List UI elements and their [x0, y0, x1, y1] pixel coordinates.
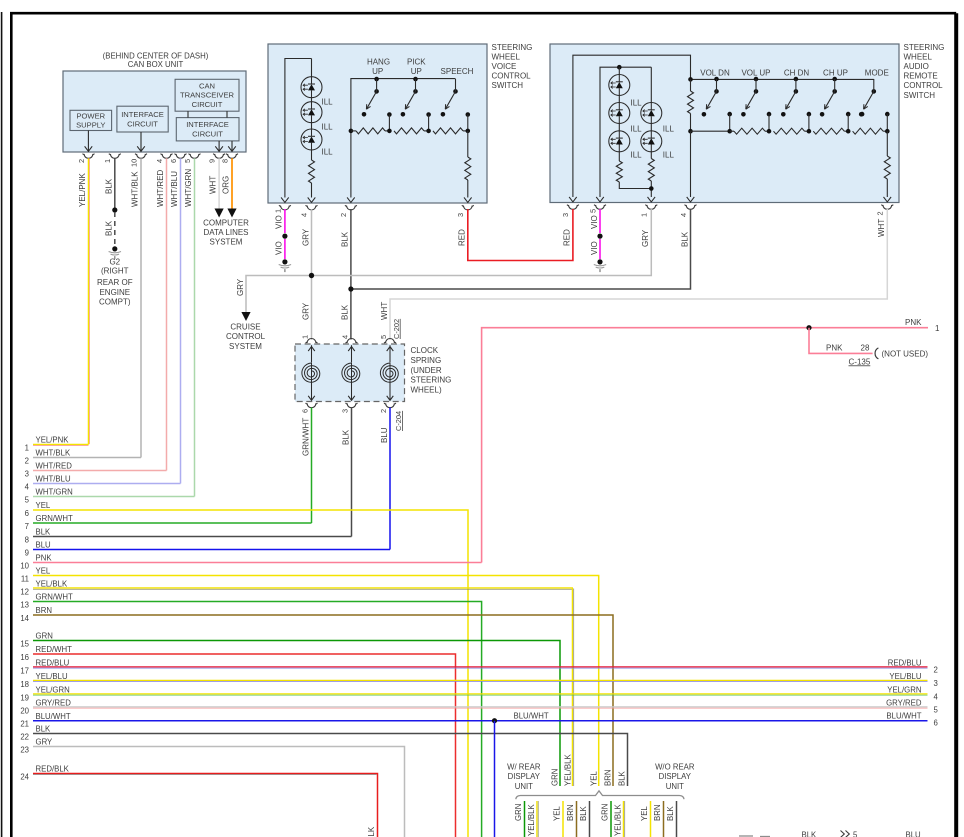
- wire GRY voice pin 4 to junction: [311, 209, 313, 276]
- svg-text:YEL: YEL: [553, 806, 562, 821]
- wire BLK from CAN pin 1: [114, 158, 116, 210]
- svg-text:BLK: BLK: [36, 528, 52, 537]
- wire 16 RED/WHT: [33, 654, 456, 837]
- junction dot PNK: [806, 325, 811, 330]
- svg-text:4: 4: [300, 213, 309, 217]
- svg-text:(NOT USED): (NOT USED): [882, 349, 929, 358]
- svg-text:GRY: GRY: [236, 278, 245, 296]
- wire GRN group 1 below brace: [524, 801, 526, 837]
- svg-text:WHT: WHT: [209, 176, 218, 194]
- svg-text:YEL/GRN: YEL/GRN: [887, 685, 921, 694]
- svg-text:GRN/WHT: GRN/WHT: [36, 514, 73, 523]
- svg-text:WHT/GRN: WHT/GRN: [36, 488, 73, 497]
- LED ILL 1 voice: [301, 77, 322, 98]
- svg-text:SUPPLY: SUPPLY: [76, 121, 105, 130]
- arrow ORG to computer data lines: [227, 209, 236, 218]
- audio series resistor to pin 2: [886, 131, 888, 156]
- svg-text:17: 17: [20, 666, 29, 675]
- wire 22 BLK: [33, 734, 628, 787]
- svg-text:WHT/RED: WHT/RED: [156, 169, 165, 207]
- svg-text:PNK: PNK: [36, 554, 53, 563]
- svg-text:MODE: MODE: [865, 68, 889, 77]
- svg-text:GRY: GRY: [641, 229, 650, 247]
- arrow interface circuit right to pin 8: [231, 141, 233, 151]
- clock spring body: [295, 344, 405, 402]
- wire GRN group 2 below brace: [610, 801, 612, 837]
- svg-text:INTERFACE: INTERFACE: [121, 110, 164, 119]
- connector cup CAN pin 2: [83, 154, 95, 159]
- wire BRN group 2 below brace: [663, 801, 665, 837]
- svg-text:WHT/GRN: WHT/GRN: [184, 169, 193, 207]
- svg-text:1: 1: [103, 159, 112, 163]
- junction dot LED return: [649, 186, 654, 191]
- svg-text:4: 4: [155, 159, 164, 163]
- svg-text:RED/BLK: RED/BLK: [36, 765, 70, 774]
- svg-text:9: 9: [208, 159, 217, 163]
- arrow power supply to pin 2: [87, 131, 89, 152]
- svg-text:DISPLAY: DISPLAY: [508, 772, 541, 781]
- clock spring path pin 1 to 6: [311, 345, 313, 362]
- svg-text:WHT: WHT: [380, 302, 389, 320]
- svg-text:GRY: GRY: [36, 738, 54, 747]
- svg-text:ILL: ILL: [322, 98, 334, 107]
- connector cup CAN pin 5: [189, 154, 201, 159]
- junction dot BLK: [112, 207, 117, 212]
- svg-text:WHT/BLK: WHT/BLK: [131, 171, 140, 207]
- svg-text:CH DN: CH DN: [784, 68, 810, 77]
- svg-text:BLK: BLK: [680, 231, 689, 247]
- wire BLK group 2 below brace: [676, 801, 678, 837]
- svg-text:STEERING: STEERING: [492, 43, 533, 52]
- svg-text:6: 6: [25, 509, 29, 518]
- stub contact pick up: [426, 112, 431, 117]
- voice switch top rail: [351, 79, 456, 198]
- LED ILL 1 audio right: [641, 103, 662, 124]
- wire 5 WHT/GRN: [33, 496, 195, 498]
- svg-text:YEL/BLK: YEL/BLK: [614, 804, 623, 836]
- svg-text:W/ REAR: W/ REAR: [507, 762, 541, 771]
- svg-text:G2: G2: [109, 257, 120, 266]
- wire WHT/RED from CAN pin 4: [166, 158, 168, 470]
- svg-text:BLU/WHT: BLU/WHT: [886, 712, 921, 721]
- wire 1 YEL/PNK: [33, 444, 89, 446]
- svg-text:WHEEL: WHEEL: [492, 52, 521, 61]
- svg-text:3: 3: [25, 469, 29, 478]
- svg-text:BRN: BRN: [653, 805, 662, 821]
- wire BLK clock pin 3 down: [351, 408, 353, 537]
- svg-text:BLK: BLK: [36, 725, 52, 734]
- svg-text:C-135: C-135: [849, 357, 871, 366]
- connector cup clock top pin 5: [384, 339, 396, 344]
- audio pin cups: [567, 205, 579, 210]
- svg-text:24: 24: [20, 772, 29, 781]
- svg-text:ILL: ILL: [322, 123, 334, 132]
- svg-text:ILL: ILL: [322, 148, 334, 157]
- stub contact vol dn: [727, 112, 732, 117]
- wire YEL/PNK from CAN pin 2: [88, 158, 90, 444]
- wire YEL/BLK group 2 below brace: [622, 801, 624, 837]
- svg-text:4: 4: [25, 482, 30, 491]
- wire 17 RED/BLU: [33, 666, 928, 668]
- svg-text:BLK: BLK: [341, 231, 350, 247]
- connector cup CAN pin 1: [109, 154, 121, 159]
- stub contact hang up: [387, 112, 392, 117]
- wire BLK junction to audio pin 4: [351, 209, 691, 289]
- svg-text:BLU: BLU: [380, 427, 389, 443]
- interface circuit block left: [117, 106, 168, 132]
- stub contact vol up: [767, 112, 772, 117]
- svg-text:3: 3: [934, 679, 938, 688]
- interface circuit block right: [176, 118, 239, 141]
- steering wheel audio remote control switch body: [550, 44, 899, 203]
- svg-text:SYSTEM: SYSTEM: [229, 342, 262, 351]
- voice pin cups: [279, 205, 291, 210]
- arrow to cruise control system: [241, 312, 250, 321]
- svg-text:VIO: VIO: [275, 215, 284, 229]
- svg-text:ORG: ORG: [222, 176, 231, 194]
- wire 20 GRY/RED: [33, 706, 928, 708]
- svg-text:YEL/BLK: YEL/BLK: [527, 804, 536, 836]
- svg-text:6: 6: [300, 409, 309, 413]
- connector cup CAN pin 8: [226, 154, 238, 159]
- wire 7 GRN/WHT: [33, 522, 312, 524]
- resistor below audio right LEDs: [650, 152, 652, 159]
- svg-text:SYSTEM: SYSTEM: [210, 237, 243, 246]
- svg-text:INTERFACE: INTERFACE: [186, 120, 229, 129]
- svg-text:4: 4: [934, 692, 939, 701]
- svg-text:BLK: BLK: [104, 178, 113, 194]
- wire GRY audio pin 1 to junction: [312, 209, 652, 276]
- wire 21 BLU/WHT: [33, 720, 928, 722]
- svg-text:2: 2: [339, 213, 348, 217]
- svg-text:AUDIO: AUDIO: [904, 62, 929, 71]
- svg-text:RED/WHT: RED/WHT: [36, 645, 73, 654]
- svg-text:BLK: BLK: [666, 805, 675, 821]
- CAN box unit body: [63, 71, 246, 152]
- wire 9 BLU: [33, 549, 390, 551]
- svg-text:RED/BLK: RED/BLK: [367, 826, 376, 837]
- svg-text:BLU/WHT: BLU/WHT: [36, 712, 71, 721]
- resistor below audio left LEDs: [618, 152, 620, 161]
- svg-text:STEERING: STEERING: [411, 376, 452, 385]
- resistor below voice LEDs: [311, 150, 313, 160]
- wire VIO voice pin 1: [284, 209, 286, 233]
- svg-text:VIO: VIO: [590, 215, 599, 229]
- wire VIO feed inside audio switch: [600, 67, 651, 197]
- svg-text:CONTROL: CONTROL: [904, 81, 944, 90]
- svg-text:YEL/BLK: YEL/BLK: [564, 754, 573, 786]
- wire 6 YEL: [33, 510, 468, 837]
- svg-text:(UNDER: (UNDER: [411, 366, 442, 375]
- svg-text:PNK: PNK: [826, 343, 843, 352]
- svg-text:3: 3: [456, 213, 465, 217]
- wire YEL/BLK group 1 below brace: [536, 801, 538, 837]
- wire WHT/GRN from CAN pin 5: [194, 158, 196, 496]
- LED ILL 2 voice: [301, 102, 322, 123]
- svg-text:1: 1: [25, 443, 29, 452]
- voice series resistor to pin 3: [467, 131, 469, 157]
- svg-text:ILL: ILL: [631, 124, 643, 133]
- svg-text:PICK: PICK: [407, 58, 426, 67]
- wire WHT audio pin 2 to clock spring pin 5: [390, 209, 887, 340]
- wire 14 BRN: [33, 615, 613, 786]
- arrow interface circuit to pin 10: [140, 132, 142, 151]
- svg-text:CIRCUIT: CIRCUIT: [192, 100, 223, 109]
- svg-text:YEL/GRN: YEL/GRN: [36, 686, 70, 695]
- svg-text:VOICE: VOICE: [492, 62, 517, 71]
- bottom partial marks: [739, 835, 753, 837]
- wire 19 YEL/GRN: [33, 693, 928, 695]
- svg-text:ILL: ILL: [663, 151, 675, 160]
- svg-text:YEL: YEL: [640, 806, 649, 821]
- svg-text:BLU/WHT: BLU/WHT: [514, 711, 549, 720]
- svg-text:UP: UP: [372, 67, 383, 76]
- svg-text:ENGINE: ENGINE: [99, 288, 130, 297]
- svg-text:SWITCH: SWITCH: [492, 81, 524, 90]
- wire PNK branch not used: [809, 328, 873, 354]
- svg-text:W/O REAR: W/O REAR: [655, 762, 695, 771]
- stub contact mode / rail end: [860, 112, 865, 117]
- wire 2 WHT/BLK: [33, 457, 141, 459]
- svg-text:4: 4: [679, 213, 688, 217]
- wire 18 YEL/BLU: [33, 679, 928, 681]
- svg-text:BLU: BLU: [906, 830, 922, 837]
- svg-text:BRN: BRN: [604, 770, 613, 786]
- svg-text:1: 1: [300, 335, 309, 339]
- svg-text:VIO: VIO: [590, 241, 599, 255]
- svg-text:5: 5: [183, 159, 192, 163]
- arrow WHT to computer data lines: [215, 209, 224, 218]
- svg-text:3: 3: [561, 213, 570, 217]
- wire BLK junction to clock spring pin 4: [350, 289, 352, 340]
- svg-text:RED: RED: [458, 229, 467, 246]
- page frame outer left line: [1, 12, 3, 837]
- connector cup CAN pin 4: [161, 154, 173, 159]
- wire YEL group 1 below brace: [562, 801, 564, 837]
- connector cup CAN pin 9: [213, 154, 225, 159]
- svg-text:1: 1: [640, 213, 649, 217]
- svg-text:3: 3: [340, 409, 349, 413]
- clock spring path pin 5 to 2: [389, 345, 391, 362]
- clock spring path pin 4 to 3: [351, 345, 353, 362]
- wire WHT from CAN pin 9: [218, 158, 220, 208]
- svg-text:PNK: PNK: [905, 318, 922, 327]
- LED ILL 2 audio left: [609, 103, 630, 124]
- svg-text:GRN/WHT: GRN/WHT: [301, 418, 310, 456]
- wire WHT/BLK from CAN pin 10: [140, 158, 142, 457]
- svg-text:CLOCK: CLOCK: [411, 346, 439, 355]
- junction dot GRY: [309, 273, 314, 278]
- svg-text:(RIGHT: (RIGHT: [101, 266, 129, 275]
- svg-text:2: 2: [876, 211, 885, 215]
- svg-text:CIRCUIT: CIRCUIT: [127, 120, 158, 129]
- shield ground VIO voice: [282, 259, 287, 264]
- svg-text:5: 5: [379, 335, 388, 339]
- wire BLK dashed to ground G2: [114, 212, 116, 249]
- svg-text:TRANSCEIVER: TRANSCEIVER: [180, 91, 235, 100]
- svg-text:VIO: VIO: [275, 241, 284, 255]
- svg-text:REMOTE: REMOTE: [904, 72, 938, 81]
- svg-text:GRY: GRY: [301, 302, 310, 320]
- wire BLU clock pin 2 down: [389, 408, 391, 550]
- svg-text:10: 10: [129, 159, 138, 167]
- wire GRN/WHT clock pin 6 down: [311, 408, 313, 524]
- LED ILL 1 audio left: [609, 75, 630, 96]
- svg-text:1: 1: [935, 324, 940, 333]
- svg-text:RED: RED: [563, 229, 572, 246]
- svg-text:CONTROL: CONTROL: [226, 332, 266, 341]
- CAN transceiver circuit block: [175, 79, 239, 111]
- wire GRY junction to clock spring pin 1: [311, 276, 313, 340]
- svg-text:13: 13: [20, 600, 29, 609]
- svg-text:CRUISE: CRUISE: [230, 323, 260, 332]
- svg-text:BLK: BLK: [104, 220, 113, 236]
- svg-text:VOL DN: VOL DN: [700, 68, 730, 77]
- svg-text:STEERING: STEERING: [904, 43, 945, 52]
- voice pin arrows: [281, 197, 289, 202]
- junction dot BLU/WHT: [492, 718, 497, 723]
- svg-text:1: 1: [273, 209, 282, 213]
- wire 13 GRN/WHT: [33, 602, 482, 837]
- wire VIO audio pin 5: [599, 209, 601, 233]
- svg-text:WHT/BLU: WHT/BLU: [36, 475, 71, 484]
- svg-text:UNIT: UNIT: [666, 782, 684, 791]
- junction dot VIO audio: [597, 234, 602, 239]
- wire RED voice pin 3 to audio pin 3: [468, 209, 573, 261]
- svg-text:C-202: C-202: [392, 319, 401, 339]
- wire BLK rail to audio pin 4: [690, 131, 692, 197]
- svg-text:WHT/BLK: WHT/BLK: [36, 449, 71, 458]
- steering wheel voice control switch body: [268, 44, 487, 203]
- svg-text:GRY/RED: GRY/RED: [886, 698, 922, 707]
- connector cup clock bottom pin 3: [346, 403, 358, 408]
- voice resistor rail: [349, 129, 354, 134]
- wire 12 YEL/BLK: [33, 587, 573, 589]
- svg-text:ILL: ILL: [631, 98, 643, 107]
- svg-text:6: 6: [169, 159, 178, 163]
- wire ORG from CAN pin 8: [231, 158, 233, 208]
- wire BLK voice pin 2 to junction: [350, 209, 352, 289]
- svg-text:COMPUTER: COMPUTER: [203, 219, 249, 228]
- svg-text:ILL: ILL: [663, 124, 675, 133]
- svg-text:4: 4: [340, 335, 349, 339]
- svg-text:GRN: GRN: [601, 804, 610, 821]
- svg-text:8: 8: [220, 159, 229, 163]
- connector cup clock top pin 4: [346, 339, 358, 344]
- svg-text:CIRCUIT: CIRCUIT: [192, 130, 223, 139]
- svg-text:2: 2: [77, 159, 86, 163]
- svg-text:16: 16: [20, 653, 29, 662]
- svg-text:23: 23: [20, 745, 29, 754]
- svg-text:YEL/BLK: YEL/BLK: [36, 580, 68, 589]
- wire between CAN transceiver and interface circuit: [187, 111, 189, 117]
- svg-text:HANG: HANG: [367, 58, 390, 67]
- ground G2: [112, 246, 117, 251]
- stub contact ch up: [846, 112, 851, 117]
- LED ILL 3 voice: [301, 129, 322, 150]
- svg-text:7: 7: [25, 522, 29, 531]
- svg-text:WHT/BLU: WHT/BLU: [170, 171, 179, 207]
- wire YEL group 2 below brace: [650, 801, 652, 837]
- svg-text:WHT/RED: WHT/RED: [36, 462, 73, 471]
- audio pin arrows: [569, 197, 577, 202]
- svg-text:WHT: WHT: [877, 219, 886, 237]
- connector cup CAN pin 6: [175, 154, 187, 159]
- svg-text:C-204: C-204: [394, 411, 403, 431]
- svg-text:2: 2: [379, 409, 388, 413]
- svg-text:SPRING: SPRING: [411, 356, 442, 365]
- svg-text:9: 9: [25, 548, 29, 557]
- svg-text:SWITCH: SWITCH: [904, 91, 936, 100]
- power supply circuit block: [70, 110, 112, 130]
- wire 15 GRN: [33, 641, 560, 787]
- svg-text:YEL/BLU: YEL/BLU: [36, 672, 68, 681]
- connector cup CAN pin 10: [135, 154, 147, 159]
- stub contact speech: [466, 112, 471, 117]
- svg-text:BLK: BLK: [341, 429, 350, 445]
- svg-text:WHEEL): WHEEL): [411, 385, 442, 394]
- arrow interface circuit right to pin 9: [218, 141, 220, 151]
- svg-text:5: 5: [588, 209, 597, 213]
- svg-text:RED/BLU: RED/BLU: [36, 659, 70, 668]
- wire VIO feed inside voice switch: [285, 59, 312, 198]
- svg-text:DATA LINES: DATA LINES: [203, 228, 248, 237]
- brace connector group: [516, 791, 684, 799]
- wire GRY branch to cruise control: [246, 276, 312, 313]
- svg-text:POWER: POWER: [76, 112, 105, 121]
- svg-text:BLU: BLU: [36, 541, 52, 550]
- wire WHT/BLU from CAN pin 6: [180, 158, 182, 483]
- svg-text:DISPLAY: DISPLAY: [659, 772, 692, 781]
- svg-text:15: 15: [20, 639, 29, 648]
- wire 11 YEL: [33, 576, 599, 787]
- svg-text:19: 19: [20, 693, 29, 702]
- svg-text:YEL/PNK: YEL/PNK: [78, 173, 87, 207]
- svg-text:GRN: GRN: [36, 632, 53, 641]
- wire BLU/WHT branch down: [494, 721, 496, 837]
- page frame right border: [954, 13, 958, 837]
- svg-text:28: 28: [861, 343, 870, 352]
- svg-text:21: 21: [20, 720, 29, 729]
- svg-text:8: 8: [25, 535, 29, 544]
- wire BRN group 1 below brace: [576, 801, 578, 837]
- wire 3 WHT/RED: [33, 470, 167, 472]
- svg-text:YEL: YEL: [589, 771, 598, 786]
- svg-text:5: 5: [934, 705, 939, 714]
- svg-text:YEL: YEL: [36, 567, 51, 576]
- junction dot BLK: [348, 286, 353, 291]
- connector cup clock top pin 1: [306, 339, 318, 344]
- stub contact ch dn: [807, 112, 812, 117]
- svg-text:22: 22: [20, 732, 29, 741]
- connector cup clock bottom pin 2: [384, 403, 396, 408]
- wire BLK group 1 below brace: [589, 801, 591, 837]
- svg-text:BLK: BLK: [617, 770, 626, 786]
- svg-text:UNIT: UNIT: [515, 782, 533, 791]
- svg-text:5: 5: [853, 830, 858, 837]
- svg-text:6: 6: [934, 719, 938, 728]
- svg-text:UP: UP: [411, 67, 422, 76]
- junction dot LED feed: [617, 65, 622, 70]
- wire VIO voice to shield ground: [284, 239, 286, 259]
- svg-text:SPEECH: SPEECH: [441, 67, 474, 76]
- svg-text:CH UP: CH UP: [823, 68, 848, 77]
- svg-text:BRN: BRN: [566, 805, 575, 821]
- svg-text:11: 11: [21, 574, 29, 583]
- svg-text:18: 18: [20, 680, 29, 689]
- svg-text:GRY/RED: GRY/RED: [36, 699, 72, 708]
- wire 10 PNK: [33, 562, 482, 564]
